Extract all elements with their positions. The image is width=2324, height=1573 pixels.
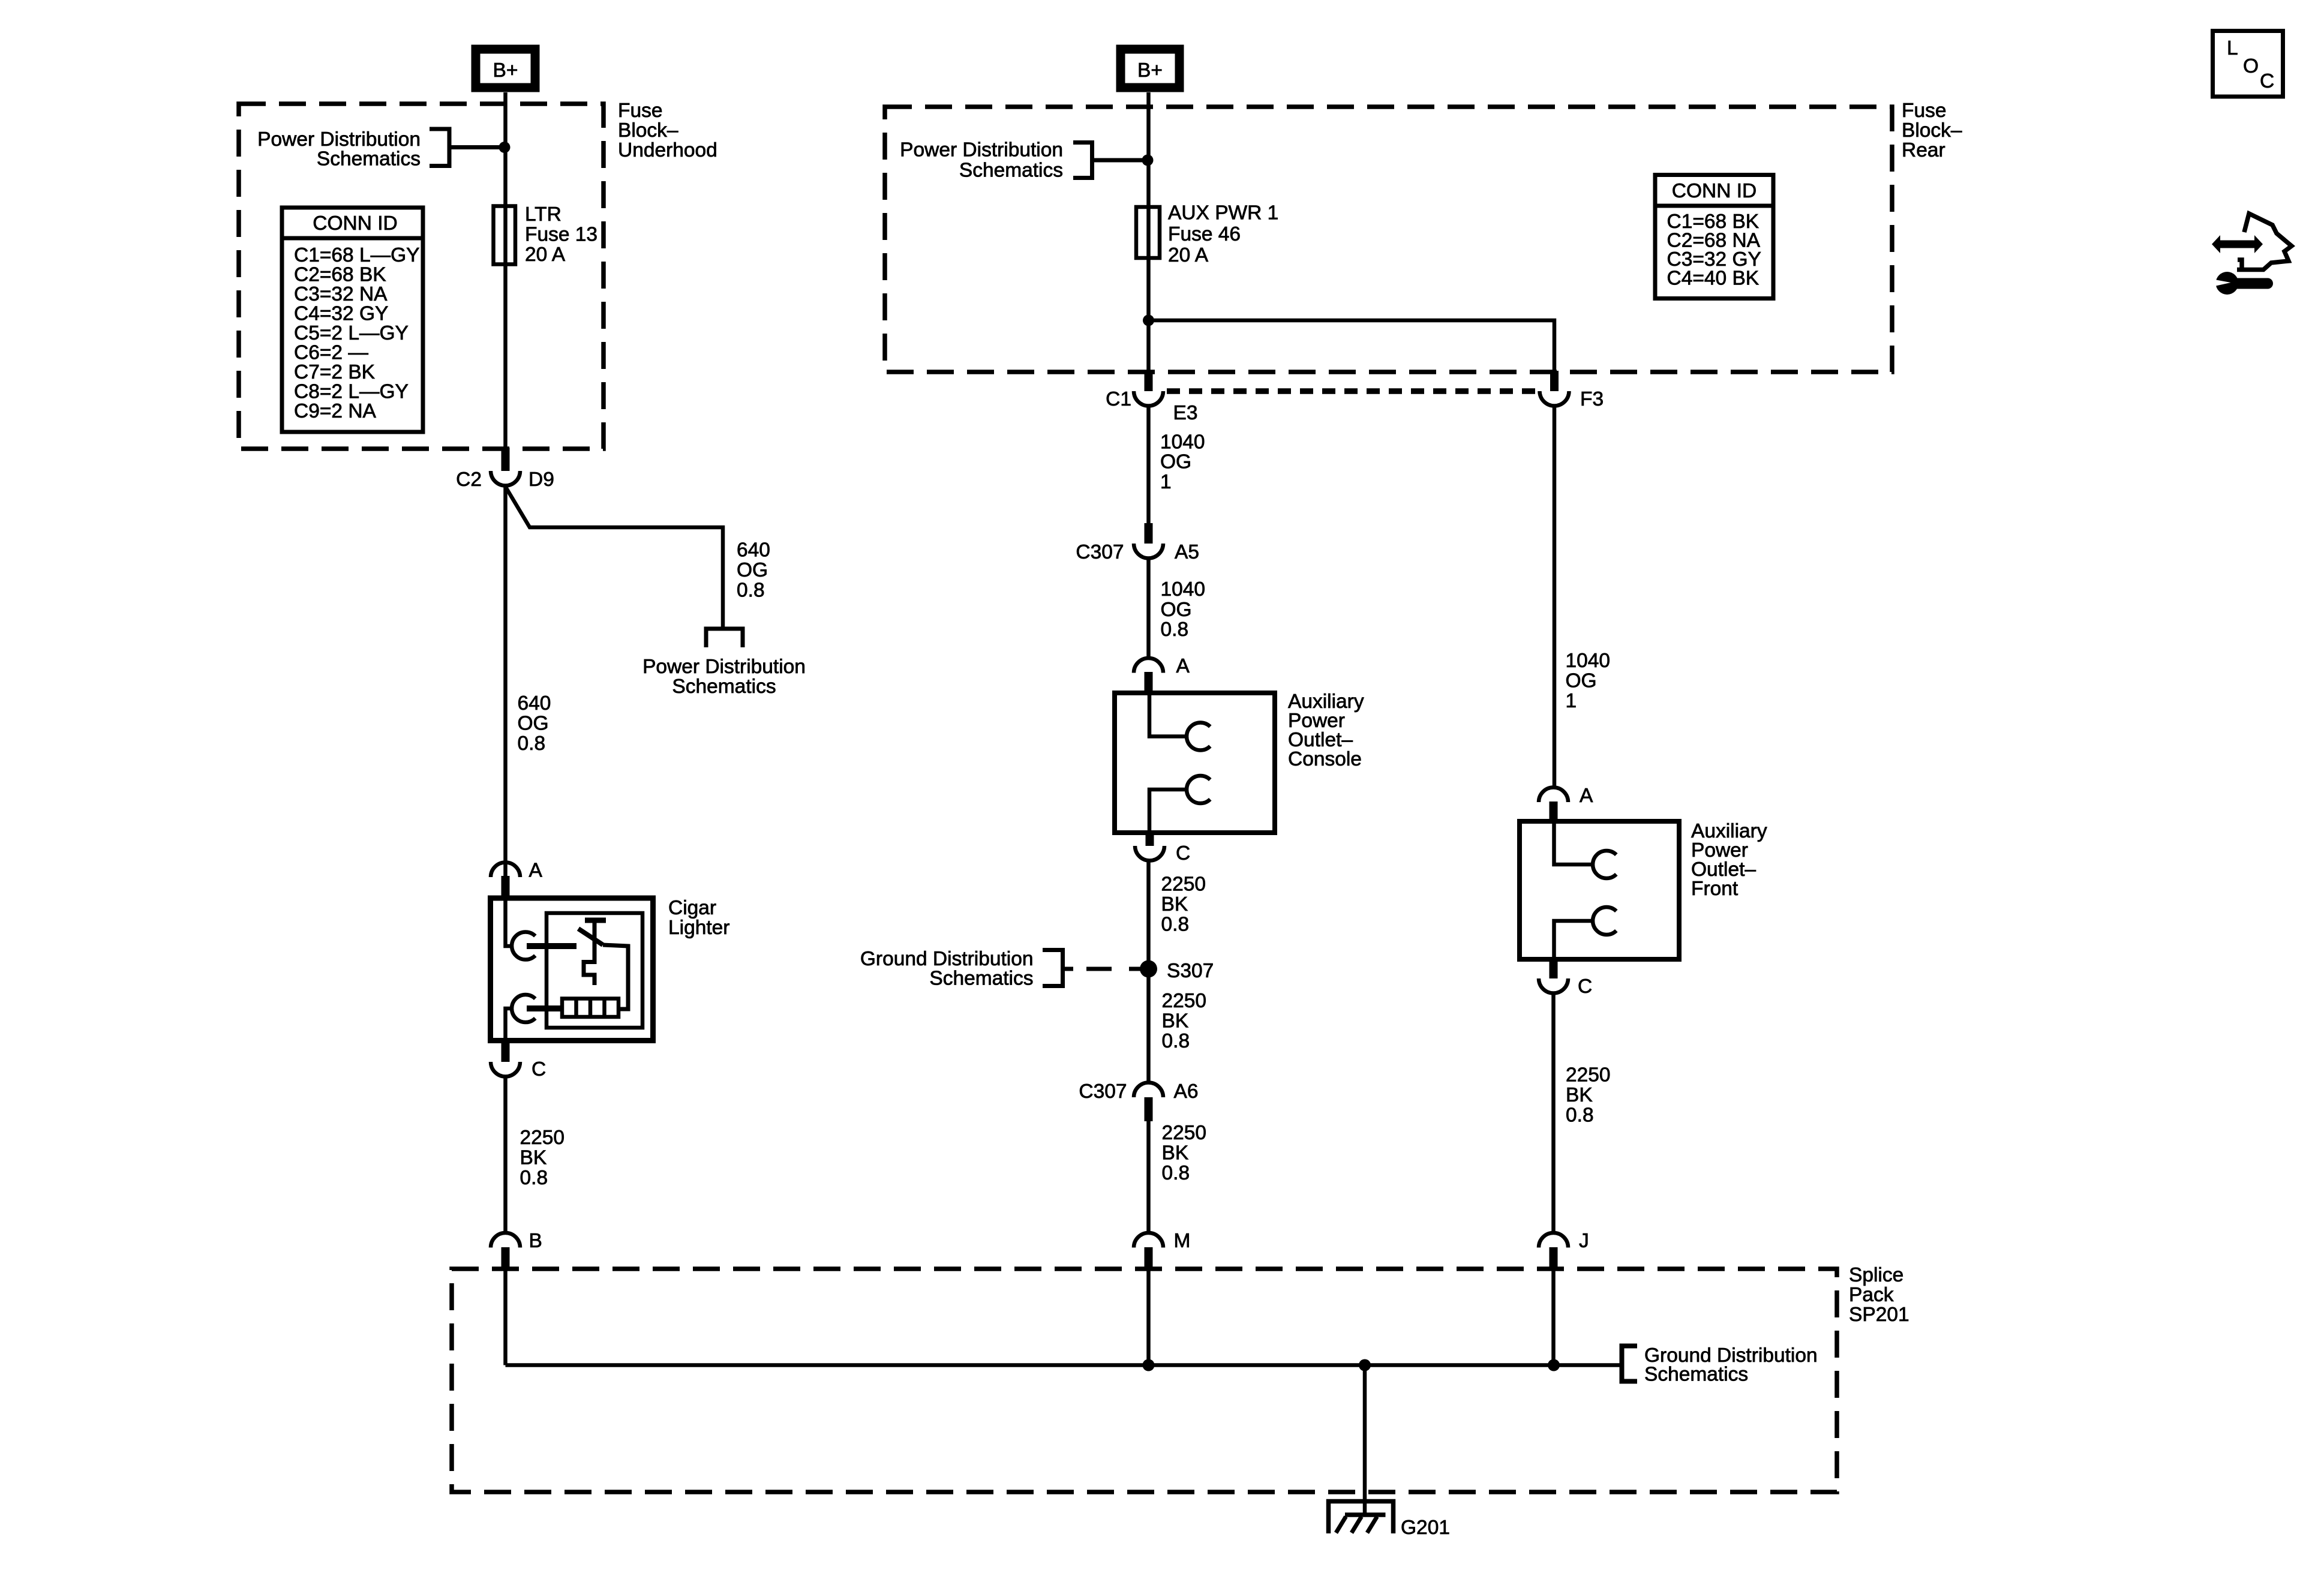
wire B into splice pack: [503, 1269, 508, 1365]
svg-text:E3: E3: [1173, 402, 1198, 424]
svg-text:C6=2 —: C6=2 —: [294, 342, 368, 364]
ground bus wire: [506, 1363, 1622, 1367]
wire pin C inside cigar lighter: [506, 1008, 512, 1040]
wire A6 down to M: [1146, 1121, 1151, 1233]
connector C2 / D9: [456, 448, 554, 491]
label Ground Distribution Schematics (S307): [860, 948, 1034, 990]
connector C console outlet: [1135, 831, 1190, 864]
front outlet terminal lower: [1554, 921, 1593, 958]
label Cigar Lighter: [668, 897, 729, 939]
half-box continuation to Power Distribution Schematics: [706, 629, 743, 647]
svg-text:OG: OG: [1566, 670, 1597, 692]
svg-text:F3: F3: [1580, 388, 1604, 410]
junction node: [499, 142, 511, 153]
wire J into splice pack: [1551, 1269, 1556, 1365]
svg-text:Console: Console: [1288, 748, 1362, 770]
svg-text:A: A: [529, 860, 543, 882]
svg-text:S307: S307: [1167, 960, 1214, 982]
wire C2 down to cigar lighter A: [503, 486, 508, 876]
bracket to Power Distribution Schematics (rear): [1073, 143, 1092, 178]
svg-text:640: 640: [518, 692, 551, 715]
connector C front outlet: [1539, 958, 1592, 998]
svg-text:BK: BK: [1161, 893, 1188, 915]
splice pack SP201 (dashed box): [452, 1269, 1837, 1492]
svg-text:2250: 2250: [1162, 1122, 1207, 1144]
svg-text:BK: BK: [1162, 1010, 1189, 1032]
svg-text:C4=40 BK: C4=40 BK: [1667, 268, 1759, 290]
connector A front outlet: [1539, 785, 1593, 821]
wire label 2250 BK 0.8 (to splice pack): [1162, 1122, 1207, 1184]
fuse AUX PWR 1 Fuse 46 20 A: [1136, 207, 1160, 258]
label Splice Pack SP201: [1849, 1264, 1909, 1326]
svg-text:C1: C1: [1106, 388, 1131, 410]
connector C307 / A6: [1079, 1080, 1198, 1121]
label Power Distribution Schematics (branch): [642, 656, 806, 698]
svg-text:C8=2 L—GY: C8=2 L—GY: [294, 381, 409, 403]
wire C front down to J: [1551, 993, 1556, 1234]
heating element: [562, 999, 618, 1017]
male blade lower: [527, 1005, 562, 1011]
svg-text:20 A: 20 A: [1168, 244, 1209, 266]
wire label 640 OG 0.8 (main): [518, 692, 551, 755]
connector A console outlet: [1134, 655, 1190, 694]
svg-text:Pack: Pack: [1849, 1284, 1894, 1306]
svg-text:Splice: Splice: [1849, 1264, 1903, 1286]
svg-text:LTR: LTR: [525, 203, 562, 226]
svg-text:C: C: [1578, 975, 1592, 998]
svg-text:G201: G201: [1401, 1517, 1450, 1539]
terminal crescent upper: [512, 932, 535, 960]
svg-text:CONN ID: CONN ID: [1672, 180, 1756, 202]
svg-text:0.8: 0.8: [1162, 1162, 1190, 1184]
power B+ terminal 2: [1121, 49, 1179, 88]
junction node G201 drop: [1359, 1359, 1371, 1371]
console outlet terminal lower: [1149, 789, 1187, 831]
svg-text:2250: 2250: [1161, 873, 1206, 896]
svg-text:C2=68 BK: C2=68 BK: [294, 264, 386, 286]
svg-text:C: C: [1176, 842, 1190, 864]
svg-text:Block–: Block–: [618, 119, 678, 142]
wire label 1040 OG 1 (console feed): [1160, 431, 1205, 494]
connector C1 / E3: [1106, 371, 1197, 424]
svg-text:Schematics: Schematics: [317, 148, 421, 170]
wire C307 down to outlet A: [1146, 559, 1151, 659]
svg-text:C9=2 NA: C9=2 NA: [294, 400, 377, 422]
junction node (rear): [1142, 155, 1154, 166]
wire C down to B: [503, 1077, 508, 1234]
connector F3: [1540, 371, 1604, 410]
connector C307 / A5: [1076, 523, 1199, 563]
LOC legend box: [2213, 31, 2283, 97]
label Fuse Block-Underhood: [618, 100, 717, 161]
svg-text:C307: C307: [1076, 541, 1124, 563]
connector B splice pack: [491, 1230, 542, 1269]
wire B+ down through fuse to C1: [1146, 92, 1151, 372]
svg-text:C: C: [2260, 70, 2274, 92]
svg-text:1: 1: [1566, 690, 1577, 712]
svg-text:A: A: [1176, 655, 1190, 677]
male blade upper: [527, 943, 577, 949]
terminal crescent lower: [512, 995, 535, 1022]
svg-text:0.8: 0.8: [737, 580, 765, 602]
junction node J bus: [1548, 1359, 1560, 1371]
svg-text:Fuse 13: Fuse 13: [525, 224, 597, 246]
svg-text:C4=32 GY: C4=32 GY: [294, 303, 388, 325]
svg-text:A6: A6: [1174, 1080, 1199, 1103]
wire label 1040 OG 0.8: [1161, 578, 1206, 641]
label Fuse Block-Rear: [1902, 100, 1962, 161]
svg-text:BK: BK: [1566, 1084, 1593, 1106]
svg-text:Schematics: Schematics: [1644, 1364, 1748, 1386]
svg-text:20 A: 20 A: [525, 244, 566, 266]
wire M into splice pack: [1146, 1269, 1151, 1365]
wire C console down through S307 to C307/A6: [1146, 861, 1151, 1084]
front outlet terminal upper: [1554, 822, 1593, 864]
power B+ terminal 1: [476, 49, 535, 88]
wire label 640 OG 0.8 (branch): [737, 539, 770, 602]
svg-text:OG: OG: [1160, 451, 1191, 473]
svg-text:C2: C2: [456, 469, 482, 491]
dashed leader to S307: [1063, 967, 1144, 971]
connector J splice pack: [1539, 1230, 1589, 1269]
svg-text:0.8: 0.8: [1162, 1030, 1190, 1052]
wire label 2250 BK 0.8 (above S307): [1161, 873, 1206, 936]
svg-text:0.8: 0.8: [1161, 619, 1189, 641]
service icon vehicle outline: [2237, 214, 2292, 270]
dotted harness line C1 to F3: [1167, 388, 1538, 394]
label Power Distribution Schematics (underhood): [257, 128, 421, 170]
CONN ID table underhood: [282, 208, 423, 432]
svg-text:SP201: SP201: [1849, 1304, 1909, 1326]
svg-text:Underhood: Underhood: [618, 139, 717, 161]
svg-text:OG: OG: [518, 713, 549, 735]
svg-text:1: 1: [1160, 471, 1172, 493]
svg-text:Block–: Block–: [1902, 119, 1962, 142]
svg-text:Power Distribution: Power Distribution: [257, 128, 421, 151]
svg-text:Rear: Rear: [1902, 139, 1945, 161]
svg-text:A: A: [1580, 785, 1593, 807]
wire bracket to B+ feed (rear): [1092, 158, 1149, 163]
svg-text:OG: OG: [1161, 599, 1192, 621]
svg-text:M: M: [1174, 1230, 1191, 1252]
auxiliary power outlet front box: [1520, 821, 1679, 959]
label Auxiliary Power Outlet-Console: [1288, 691, 1364, 770]
svg-text:Fuse 46: Fuse 46: [1168, 223, 1241, 245]
wire label 2250 BK 0.8 (front): [1566, 1064, 1611, 1127]
svg-text:Schematics: Schematics: [959, 160, 1063, 182]
wire label 1040 OG 1 (front feed): [1566, 650, 1611, 712]
wire drop to ground G201: [1363, 1365, 1367, 1517]
cigar lighter inner box: [547, 913, 642, 1028]
svg-text:Power Distribution: Power Distribution: [900, 139, 1063, 161]
splice S307: [1140, 960, 1214, 982]
svg-text:Lighter: Lighter: [668, 917, 729, 939]
wire branch inside rear fuse block to F3: [1149, 320, 1555, 372]
svg-text:Schematics: Schematics: [672, 676, 776, 698]
svg-text:L: L: [2227, 37, 2238, 59]
wire blade to right rail: [603, 945, 628, 1009]
svg-text:O: O: [2243, 55, 2259, 77]
svg-text:2250: 2250: [1566, 1064, 1611, 1086]
cigar lighter outer box: [491, 898, 653, 1041]
svg-text:0.8: 0.8: [1161, 914, 1190, 936]
bracket to Ground Distribution Schematics (bus): [1622, 1346, 1638, 1382]
wire B+ down through fuse to connector C2: [503, 92, 508, 449]
bracket to Power Distribution Schematics: [430, 129, 449, 166]
svg-text:C7=2 BK: C7=2 BK: [294, 361, 375, 383]
console outlet terminal upper: [1149, 694, 1187, 737]
connector A cigar lighter: [491, 860, 543, 898]
svg-text:AUX PWR 1: AUX PWR 1: [1168, 202, 1278, 224]
svg-text:Power Distribution: Power Distribution: [642, 656, 806, 678]
svg-text:1040: 1040: [1161, 578, 1206, 601]
switch blade: [578, 929, 603, 945]
fuse block rear (dashed box): [885, 107, 1892, 372]
svg-text:2250: 2250: [1162, 990, 1207, 1012]
svg-text:B+: B+: [1137, 59, 1163, 82]
thermal contact T: [585, 920, 606, 964]
wire pin A inside cigar lighter: [506, 897, 512, 946]
wire F3 down to front outlet A: [1553, 406, 1557, 788]
svg-text:1040: 1040: [1566, 650, 1611, 672]
svg-text:OG: OG: [737, 559, 768, 581]
service icon wrench: [2215, 272, 2268, 295]
svg-text:C3=32 NA: C3=32 NA: [294, 283, 388, 305]
svg-text:Cigar: Cigar: [668, 897, 716, 919]
CONN ID table rear: [1655, 175, 1773, 299]
wire label 2250 BK 0.8 (cigar): [520, 1127, 565, 1189]
svg-text:Fuse: Fuse: [1902, 100, 1946, 122]
bracket to Ground Distribution Schematics: [1043, 950, 1063, 986]
wire branch diagonal to power distribution: [506, 487, 723, 629]
wire bracket to B+ feed: [449, 145, 506, 149]
svg-text:Ground Distribution: Ground Distribution: [860, 948, 1034, 970]
svg-text:C5=2 L—GY: C5=2 L—GY: [294, 322, 409, 344]
auxiliary power outlet console box: [1115, 693, 1275, 833]
svg-text:1040: 1040: [1160, 431, 1205, 454]
svg-text:J: J: [1579, 1230, 1589, 1252]
svg-text:0.8: 0.8: [1566, 1104, 1594, 1127]
svg-text:B: B: [529, 1230, 542, 1252]
svg-text:BK: BK: [520, 1147, 547, 1169]
svg-text:D9: D9: [529, 469, 554, 491]
label Ground Distribution Schematics (bus): [1644, 1344, 1818, 1386]
ground G201 symbol: [1329, 1502, 1450, 1539]
connector C cigar lighter: [491, 1040, 546, 1080]
svg-text:CONN ID: CONN ID: [313, 212, 397, 235]
connector M splice pack: [1134, 1230, 1190, 1269]
service icon double arrow: [2212, 235, 2263, 253]
svg-text:B+: B+: [493, 59, 518, 82]
svg-text:640: 640: [737, 539, 770, 562]
svg-text:0.8: 0.8: [518, 733, 546, 755]
svg-text:C307: C307: [1079, 1080, 1127, 1103]
fuse block underhood (dashed box): [239, 104, 603, 449]
label Power Distribution Schematics (rear): [900, 139, 1063, 182]
junction node branch: [1143, 315, 1154, 326]
svg-text:Front: Front: [1691, 878, 1739, 900]
wire C1 down to C307: [1146, 406, 1151, 524]
svg-text:A5: A5: [1175, 541, 1199, 563]
junction node M bus: [1143, 1359, 1155, 1371]
svg-text:BK: BK: [1162, 1142, 1189, 1164]
wire label 2250 BK 0.8 (below S307): [1162, 990, 1207, 1052]
svg-text:C: C: [532, 1058, 546, 1080]
fuse LTR Fuse 13 20 A: [494, 206, 516, 265]
svg-text:Fuse: Fuse: [618, 100, 662, 122]
svg-text:2250: 2250: [520, 1127, 565, 1149]
bimetal jog: [584, 962, 594, 986]
svg-text:C1=68 L—GY: C1=68 L—GY: [294, 244, 420, 266]
svg-text:Schematics: Schematics: [929, 968, 1033, 990]
svg-text:0.8: 0.8: [520, 1167, 548, 1189]
label Auxiliary Power Outlet-Front: [1691, 820, 1767, 900]
